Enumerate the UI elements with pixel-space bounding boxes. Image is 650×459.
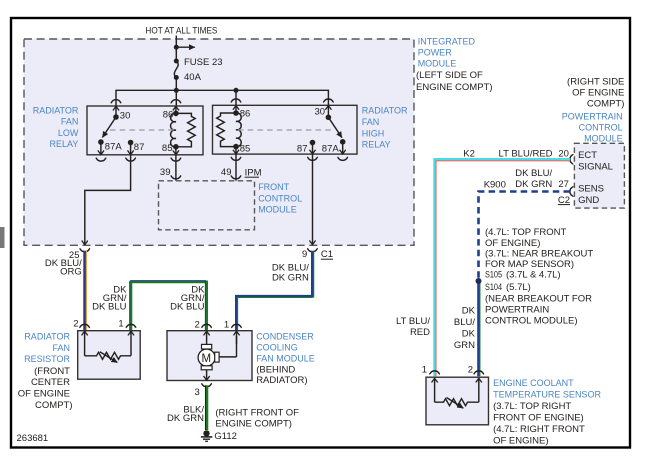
svg-text:M: M: [202, 353, 212, 365]
label POWERTRAIN CONTROL MODULE: [562, 111, 623, 143]
svg-text:FAN: FAN: [52, 343, 70, 353]
svg-text:85: 85: [240, 143, 251, 154]
svg-text:2: 2: [73, 319, 78, 330]
wire pin 87 low relay to IPM C-edge pin 25: [85, 155, 131, 245]
connector arc IPM pin 25: [80, 248, 91, 251]
wire DK BLU/ORG pin 25 to radiator fan resistor pin 2: [45, 251, 87, 331]
svg-text:3: 3: [195, 387, 200, 398]
wire fuse to bus: [175, 78, 177, 107]
svg-text:RESISTOR: RESISTOR: [24, 354, 70, 364]
svg-text:RED: RED: [410, 327, 430, 338]
coil low relay 86-85: [162, 106, 195, 154]
wire pin 85 high relay to FCM pin 49: [235, 154, 237, 181]
wire pin 85 low relay to FCM pin 39: [175, 155, 177, 181]
wire K2 LT BLU/RED PCM pin 20 to ECT sensor pin 1: [396, 149, 570, 377]
svg-text:LT BLU/RED: LT BLU/RED: [499, 149, 553, 160]
svg-text:INTEGRATED: INTEGRATED: [418, 36, 476, 46]
connector arc pin 30 high relay: [323, 99, 334, 102]
wire hot feed down from label: [175, 36, 177, 62]
svg-text:OF ENGINE: OF ENGINE: [18, 389, 70, 400]
svg-text:RADIATOR: RADIATOR: [24, 332, 70, 342]
svg-text:COMPT): COMPT): [35, 400, 72, 411]
relay K_low box (Radiator Fan Low Relay): [87, 106, 203, 155]
svg-text:1: 1: [224, 320, 229, 331]
motor M1 box (Condenser Cooling Fan Module): [167, 320, 252, 398]
connector arc pin 86 high relay: [231, 99, 242, 102]
wire B+ bus: [116, 90, 328, 106]
svg-text:DK BLU/: DK BLU/: [515, 168, 552, 179]
connector arc FCM pin 49: [231, 176, 242, 179]
svg-text:ENGINE COMPT): ENGINE COMPT): [215, 418, 292, 429]
svg-text:S104: S104: [485, 282, 502, 293]
svg-text:27: 27: [558, 179, 569, 190]
svg-text:86: 86: [240, 108, 251, 119]
svg-text:FAN MODULE: FAN MODULE: [256, 353, 315, 363]
connector arc PCM pin 20: [570, 154, 573, 165]
svg-text:RELAY: RELAY: [362, 140, 391, 150]
svg-text:(4.7L: TOP FRONT: (4.7L: TOP FRONT: [485, 227, 566, 238]
connector arc pin 86 low relay: [171, 100, 182, 103]
svg-text:1: 1: [422, 365, 427, 376]
svg-text:BLU/: BLU/: [454, 317, 475, 328]
label IPM underlined: [245, 167, 262, 178]
svg-text:K900: K900: [484, 179, 506, 190]
svg-text:ENGINE COOLANT: ENGINE COOLANT: [493, 378, 574, 388]
dashed link low relay: [110, 129, 174, 131]
svg-text:GRN: GRN: [454, 340, 475, 351]
svg-text:TEMPERATURE SENSOR: TEMPERATURE SENSOR: [493, 389, 601, 399]
connector arc pin 87 low relay: [125, 158, 136, 161]
svg-text:MODULE: MODULE: [418, 58, 457, 68]
connector arc IPM pin 9 C1: [307, 248, 318, 251]
svg-text:RELAY: RELAY: [50, 139, 79, 149]
svg-text:39: 39: [160, 167, 171, 178]
label C1 underlined: [321, 249, 333, 260]
svg-text:CENTER: CENTER: [31, 377, 70, 388]
svg-text:DK BLU: DK BLU: [170, 301, 204, 312]
svg-text:RADIATOR): RADIATOR): [256, 375, 307, 386]
connector arc pin 85 low relay: [171, 158, 182, 161]
label FRONT CONTROL MODULE: [258, 182, 302, 214]
dashed link high relay: [238, 129, 331, 131]
label C2 underlined: [558, 195, 570, 206]
label ECT SIGNAL: [578, 150, 613, 172]
svg-text:CONTROL MODULE): CONTROL MODULE): [485, 316, 578, 327]
svg-text:87A: 87A: [322, 143, 340, 154]
svg-text:DK GRN: DK GRN: [272, 272, 309, 283]
sensor ECT box (Engine Coolant Temperature Sensor): [422, 365, 489, 425]
svg-text:49: 49: [221, 167, 232, 178]
svg-text:9: 9: [302, 249, 307, 260]
wire K900 DK BLU/DK GRN PCM pin 27 to ECT sensor pin 2: [454, 168, 570, 376]
svg-text:GND: GND: [578, 195, 599, 206]
svg-text:LOW: LOW: [58, 128, 79, 138]
connector arc pin 87A high relay: [337, 157, 348, 160]
junction splice S105/S104: [476, 278, 482, 284]
svg-text:2: 2: [195, 320, 200, 331]
svg-text:FRONT: FRONT: [258, 182, 289, 192]
svg-text:RADIATOR: RADIATOR: [33, 106, 79, 116]
svg-text:MODULE: MODULE: [584, 134, 623, 144]
connector arc pin 87A low relay: [96, 158, 107, 161]
svg-text:(5.7L): (5.7L): [506, 282, 531, 293]
svg-text:(3.7L & 4.7L): (3.7L & 4.7L): [506, 270, 561, 281]
connector arc pin 87 high relay: [307, 157, 318, 160]
svg-text:(NEAR BREAKOUT FOR: (NEAR BREAKOUT FOR: [485, 293, 592, 304]
svg-text:263681: 263681: [17, 433, 49, 444]
svg-text:1: 1: [118, 319, 123, 330]
svg-text:HOT AT ALL TIMES: HOT AT ALL TIMES: [145, 26, 217, 37]
svg-text:(3.7L: TOP RIGHT: (3.7L: TOP RIGHT: [493, 401, 571, 412]
svg-text:87A: 87A: [105, 141, 123, 152]
svg-text:SENS: SENS: [578, 184, 604, 195]
connector arc pin 85 high relay: [231, 157, 242, 160]
svg-text:FUSE 23: FUSE 23: [184, 57, 223, 68]
svg-text:POWER: POWER: [418, 48, 453, 58]
pin 87 low relay: [128, 140, 145, 155]
relay K_high box (Radiator Fan High Relay): [213, 105, 358, 154]
svg-text:DK: DK: [462, 305, 476, 316]
svg-text:(RIGHT SIDE: (RIGHT SIDE: [567, 76, 624, 87]
svg-text:OF ENGINE): OF ENGINE): [493, 435, 548, 446]
svg-text:2: 2: [468, 365, 473, 376]
resistor R_fan box (Radiator Fan Resistor): [73, 319, 140, 380]
wire DK GRN/DK BLU resistor pin 1 to condenser fan pin 2: [92, 281, 207, 331]
svg-text:LT BLU/: LT BLU/: [396, 316, 430, 327]
svg-text:40A: 40A: [184, 72, 202, 83]
junction dot bus/fuse: [174, 88, 179, 93]
svg-text:DK GRN: DK GRN: [167, 413, 204, 424]
label SENS GND: [578, 184, 604, 206]
svg-text:30: 30: [120, 110, 131, 121]
svg-text:POWERTRAIN: POWERTRAIN: [485, 305, 549, 316]
svg-text:ORG: ORG: [60, 266, 82, 277]
svg-text:OF ENGINE: OF ENGINE: [572, 87, 624, 98]
svg-text:85: 85: [162, 143, 173, 154]
svg-text:CONTROL: CONTROL: [579, 123, 623, 133]
svg-text:(LEFT SIDE OF: (LEFT SIDE OF: [416, 70, 483, 81]
module IPM (Integrated Power Module) box: [24, 39, 414, 245]
wire DK BLU/DK GRN IPM C1 pin 9 to condenser fan pin 1: [236, 251, 313, 331]
ground G112: [201, 430, 237, 442]
svg-text:87: 87: [134, 142, 145, 153]
label splice location notes: [485, 227, 593, 327]
pin 87 high relay: [297, 140, 315, 155]
svg-text:87: 87: [297, 143, 308, 154]
label ENGINE COOLANT TEMPERATURE SENSOR: [493, 378, 601, 447]
svg-text:COMPT): COMPT): [587, 99, 624, 110]
svg-text:C1: C1: [321, 249, 333, 260]
svg-text:CONTROL: CONTROL: [258, 193, 302, 203]
wire pin 87 high relay to IPM C1 pin 9: [312, 154, 314, 245]
connector arc PCM pin 27: [570, 186, 573, 197]
coil high relay 86-85: [217, 106, 251, 155]
module PCM (Powertrain Control Module) box: [574, 143, 624, 208]
svg-text:(BEHIND: (BEHIND: [256, 364, 295, 375]
svg-text:HIGH: HIGH: [362, 128, 385, 138]
svg-text:FOR MAP SENSOR): FOR MAP SENSOR): [485, 259, 574, 270]
label right side of engine compt: [567, 76, 624, 109]
switch high relay pin 30 to 87A: [315, 106, 342, 138]
svg-text:20: 20: [558, 149, 569, 160]
pin 87A high relay: [322, 139, 346, 154]
label right front of engine compt: [215, 407, 299, 429]
svg-text:DK: DK: [462, 328, 476, 339]
svg-text:SIGNAL: SIGNAL: [578, 161, 613, 172]
svg-text:86: 86: [163, 110, 174, 121]
label RADIATOR FAN HIGH RELAY: [362, 106, 408, 150]
fuse F23 40A: [174, 57, 223, 83]
label INTEGRATED POWER MODULE: [416, 36, 493, 93]
svg-text:ECT: ECT: [578, 150, 597, 161]
connector arc FCM pin 39: [171, 176, 182, 179]
svg-text:OF ENGINE): OF ENGINE): [485, 238, 540, 249]
svg-text:FRONT OF ENGINE): FRONT OF ENGINE): [493, 412, 584, 423]
module FCM (Front Control Module) box: [159, 181, 255, 230]
svg-text:COOLING: COOLING: [256, 343, 298, 353]
svg-text:30: 30: [315, 107, 326, 118]
svg-text:POWERTRAIN: POWERTRAIN: [562, 111, 623, 121]
label RADIATOR FAN RESISTOR: [18, 332, 73, 411]
svg-text:(RIGHT FRONT OF: (RIGHT FRONT OF: [215, 407, 299, 418]
wire BLK/DK GRN condenser pin 3 to ground: [167, 385, 207, 430]
label HOT AT ALL TIMES: [145, 26, 217, 37]
svg-text:MODULE: MODULE: [258, 205, 297, 215]
svg-text:(FRONT: (FRONT: [34, 366, 70, 377]
svg-text:G112: G112: [214, 431, 237, 442]
svg-text:ENGINE COMPT): ENGINE COMPT): [416, 82, 493, 93]
connector arc pin 30 low relay: [111, 100, 122, 103]
svg-text:K2: K2: [463, 149, 475, 160]
svg-text:DK BLU: DK BLU: [92, 301, 126, 312]
node branch with right arrow: [174, 45, 195, 50]
svg-text:DK GRN: DK GRN: [515, 179, 552, 190]
svg-text:FAN: FAN: [61, 117, 79, 127]
svg-text:S105: S105: [485, 270, 502, 281]
pin 87A low relay: [98, 139, 122, 154]
svg-text:CONDENSER: CONDENSER: [256, 332, 314, 342]
svg-text:(4.7L: RIGHT FRONT: (4.7L: RIGHT FRONT: [493, 424, 585, 435]
svg-text:RADIATOR: RADIATOR: [362, 106, 408, 116]
svg-text:FAN: FAN: [362, 117, 380, 127]
label CONDENSER COOLING FAN MODULE: [256, 332, 315, 387]
label RADIATOR FAN LOW RELAY: [33, 106, 79, 150]
junction dot bus/high coil: [234, 88, 239, 93]
switch low relay pin 30 to 87A: [102, 106, 130, 137]
